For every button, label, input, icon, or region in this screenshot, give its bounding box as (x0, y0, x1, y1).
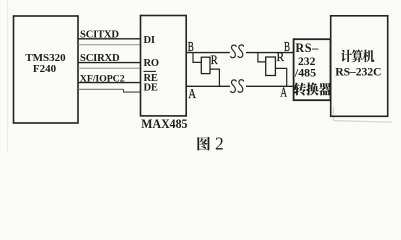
pin RE (active low, overline) (144, 71, 158, 84)
label 计算机 (341, 50, 375, 63)
svg-text:RO: RO (144, 58, 159, 69)
cable break marks SS on wire B (231, 45, 244, 58)
cable break marks SS on wire A (231, 80, 244, 93)
svg-text:DE: DE (144, 82, 158, 93)
svg-text:/485: /485 (294, 65, 316, 79)
IC U2 MAX485 box (141, 16, 187, 116)
svg-text:DI: DI (144, 35, 155, 46)
label 转换器 (converter) (294, 82, 332, 95)
svg-text:SCIRXD: SCIRXD (80, 53, 120, 64)
svg-text:2: 2 (215, 134, 224, 154)
svg-text:F240: F240 (33, 63, 57, 75)
background paper (0, 0, 401, 153)
resistor R (right termination) (258, 49, 287, 86)
wire SCITXD (TMS320 to MAX485 DI) (78, 30, 141, 45)
svg-text:MAX485: MAX485 (141, 116, 188, 131)
scan crease (7, 0, 9, 153)
svg-text:A: A (188, 87, 196, 102)
block RS-232/485 converter (294, 39, 331, 100)
block computer 计算机 RS-232C (331, 16, 388, 117)
wire SCIRXD (TMS320 to MAX485 RO) (78, 53, 141, 68)
wire B (MAX485 to converter, with cable break) (186, 52, 294, 54)
svg-text:R: R (211, 52, 218, 67)
svg-text:SCITXD: SCITXD (80, 30, 119, 41)
svg-text:A: A (280, 85, 287, 100)
wire branch to DE pin (124, 89, 141, 92)
block U1 TMS320F240 (14, 16, 79, 123)
svg-text:B: B (284, 40, 290, 55)
wire XF/IOPC2 (TMS320 to MAX485 RE) (78, 74, 141, 90)
svg-text:RS–: RS– (295, 41, 319, 55)
svg-text:RS–232C: RS–232C (335, 66, 381, 79)
caption 图 2 (figure 2) (197, 134, 223, 154)
resistor R (left termination) (193, 52, 219, 86)
scan ghost lines near computer box (334, 107, 393, 122)
svg-text:XF/IOPC2: XF/IOPC2 (80, 74, 125, 85)
wire A (MAX485 to converter, with cable break) (186, 85, 294, 87)
